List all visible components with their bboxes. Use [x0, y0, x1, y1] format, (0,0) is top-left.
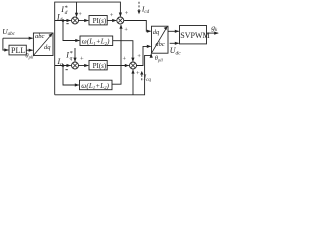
svg-text:+: +: [125, 10, 129, 17]
svg-text:+: +: [136, 70, 140, 77]
svg-text:SVPWM: SVPWM: [180, 31, 209, 40]
svg-text:+: +: [124, 26, 128, 33]
svg-text:+: +: [110, 12, 114, 19]
svg-text:dq: dq: [44, 44, 51, 51]
svg-text:+: +: [123, 55, 127, 62]
svg-text:PI(s): PI(s): [93, 62, 107, 70]
svg-text:q: q: [70, 56, 73, 62]
svg-text:PLL: PLL: [11, 46, 25, 55]
svg-text:+: +: [80, 56, 84, 63]
svg-text:d: d: [65, 10, 68, 16]
svg-text:abc: abc: [35, 33, 45, 40]
svg-text:+: +: [137, 53, 141, 60]
svg-text:+: +: [78, 11, 82, 18]
svg-text:PI(s): PI(s): [93, 17, 107, 25]
svg-text:abc: abc: [155, 41, 165, 48]
svg-text:dq: dq: [153, 29, 160, 36]
